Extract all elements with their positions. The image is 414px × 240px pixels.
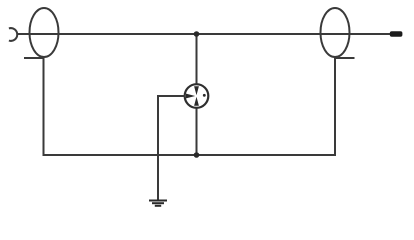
wire: vertical from source circle to bottom bus [196, 107, 198, 155]
current probe T1 (left toroid) [30, 8, 59, 57]
wire: left vertical drop [43, 57, 45, 157]
wire: main conductor (top bus) [17, 33, 390, 35]
arrow from top pointing to center [194, 86, 199, 95]
ground symbol [149, 201, 167, 206]
connector arc at left end of conductor [9, 28, 17, 41]
winding stub of left probe [24, 57, 44, 59]
termination load (black block at right end) [390, 31, 403, 37]
node: junction dot on bottom bus [194, 152, 200, 158]
wire: vertical from top bus to source circle [196, 34, 198, 85]
wire: right vertical drop [334, 57, 336, 157]
arrow from bottom pointing to center [194, 97, 199, 106]
arrow from left pointing to center [186, 94, 195, 99]
dot inside circle [203, 94, 206, 97]
wire: ground drop (crosses bottom bus, no junction) [157, 95, 159, 200]
source / injection point symbol G1 (circle with converging arrows) [185, 84, 209, 108]
winding stub of right probe [335, 57, 355, 59]
current probe T2 (right toroid) [321, 8, 350, 57]
wire: horizontal into left side of source circle [158, 95, 185, 97]
wire: bottom return bus [43, 154, 337, 156]
node: junction dot on top bus [194, 31, 200, 37]
